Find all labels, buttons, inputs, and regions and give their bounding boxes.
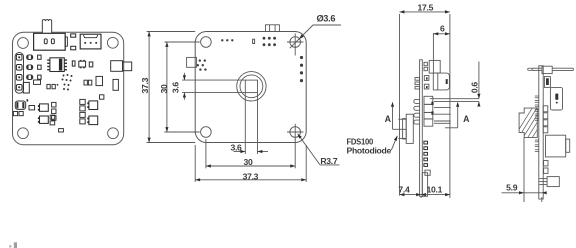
- switch SW1 slot 2: [51, 39, 54, 44]
- dim 0.6: [430, 62, 481, 107]
- capacitor C4: [23, 82, 29, 93]
- edge component Y1: [111, 61, 132, 72]
- dim 37.3 horizontal: [195, 145, 306, 182]
- bottom connector side: [422, 173, 427, 197]
- callout diameter 3.6: [290, 14, 341, 49]
- mounting hole bottom-left: [201, 127, 212, 138]
- PCB board outline (top view): [13, 32, 124, 145]
- svg-text:5.9: 5.9: [506, 183, 518, 193]
- capacitor C2: [89, 62, 93, 67]
- resistor R7: [29, 106, 35, 110]
- capacitor C10: [100, 95, 104, 99]
- photodiode side body: [398, 114, 413, 143]
- photodiode square: [245, 80, 257, 142]
- svg-text:Ø3.6: Ø3.6: [316, 14, 335, 24]
- capacitor C5: [15, 99, 28, 109]
- dim 37.3 vertical: [140, 32, 195, 143]
- switch side body: [429, 60, 449, 90]
- capacitor C1: [72, 61, 75, 66]
- photodiode section (hatched): [514, 107, 565, 138]
- resistor R8: [13, 112, 23, 116]
- mounting hole bottom-right: [287, 124, 303, 140]
- extension line right: [449, 14, 451, 198]
- resistors R1-R3: [38, 55, 42, 79]
- cropped logo fragment: [9, 242, 17, 248]
- switch SW1 side nub: [65, 37, 67, 46]
- switch SW1 slot 1: [44, 39, 47, 44]
- dim 3.6 vertical: [170, 73, 245, 100]
- resistor R4: [113, 79, 118, 90]
- pin stubs: [424, 141, 428, 166]
- svg-text:17.5: 17.5: [418, 2, 434, 12]
- switch body right view: [542, 66, 552, 73]
- dim 30 horizontal: [206, 139, 295, 168]
- IC U1: [47, 58, 67, 72]
- lower block: [539, 177, 559, 187]
- corner hole top-right: [107, 37, 118, 48]
- via cluster 2: [197, 59, 207, 70]
- PCB board outline (dimension view): [195, 32, 306, 143]
- svg-text:Photodiode: Photodiode: [347, 145, 392, 155]
- PCB edge (side view): [420, 60, 423, 197]
- resistor R6: [47, 84, 58, 89]
- terminal stack right view: [543, 106, 548, 133]
- svg-text:A: A: [385, 114, 392, 124]
- pin header J2: [15, 53, 23, 94]
- dim 17.5: [400, 2, 450, 13]
- transistor Q5: [87, 116, 97, 125]
- via cluster: [62, 74, 73, 91]
- connector J1 pins: [84, 42, 97, 44]
- side components upper: [424, 62, 429, 89]
- bottom row parts: [50, 115, 55, 125]
- dim 6: [433, 23, 450, 73]
- svg-text:3.6: 3.6: [170, 82, 180, 94]
- dim 7.4 and 10.1: [398, 185, 450, 198]
- extension line left: [399, 14, 401, 196]
- capacitor C3: [84, 80, 92, 85]
- svg-text:30: 30: [244, 157, 253, 167]
- corner hole top-left: [18, 38, 29, 49]
- svg-text:10.1: 10.1: [427, 185, 443, 195]
- fiducial: [253, 39, 255, 43]
- dim 30 vertical: [159, 42, 200, 132]
- section arrow A left: [385, 102, 399, 130]
- resistor column R9-R11: [52, 102, 56, 120]
- PCB edge (right view): [539, 66, 543, 199]
- diodes D1-D3: [27, 55, 33, 80]
- dim 5.9: [502, 183, 547, 202]
- capacitor column C6-C9: [80, 99, 85, 124]
- spring contacts: [414, 78, 420, 125]
- bottom connector right view: [546, 135, 570, 157]
- lower component: [425, 170, 430, 175]
- through-hole pins: [535, 96, 539, 152]
- svg-text:37.3: 37.3: [243, 171, 259, 181]
- transistor Q1: [79, 60, 86, 68]
- via grid: [263, 37, 276, 46]
- svg-text:3.6: 3.6: [230, 142, 242, 152]
- transistor Q2: [38, 104, 48, 111]
- svg-text:30: 30: [159, 84, 169, 93]
- edge tab: [187, 57, 197, 67]
- wire lines: [434, 107, 451, 123]
- svg-text:R3.7: R3.7: [320, 156, 337, 166]
- resistor R5: [34, 80, 41, 84]
- corner hole bottom-right: [108, 128, 119, 139]
- svg-text:0.6: 0.6: [470, 82, 480, 94]
- transistor Q4: [87, 101, 97, 110]
- via row: [221, 39, 233, 41]
- small part: [544, 161, 548, 174]
- resistor R14: [59, 129, 64, 132]
- connector J1 notch: [83, 35, 97, 38]
- pad P1: [71, 34, 76, 37]
- component A4: [544, 77, 550, 88]
- corner hole bottom-left: [18, 128, 29, 139]
- via column: [300, 56, 303, 82]
- photodiode window circles: [237, 72, 266, 101]
- svg-text:6: 6: [440, 23, 445, 33]
- svg-text:A: A: [463, 114, 470, 124]
- switch lever rod: [528, 68, 574, 70]
- terminal stack: [424, 96, 434, 126]
- mounting hole top-left: [201, 37, 212, 48]
- switch bump on top edge: [266, 25, 280, 32]
- transistor Q3: [38, 116, 48, 123]
- dim 3.6 horizontal: [230, 142, 268, 154]
- connector body right view: [550, 87, 562, 110]
- switch SW1 lever: [42, 20, 51, 34]
- inductor L1: [96, 76, 103, 85]
- svg-text:37.3: 37.3: [140, 77, 150, 93]
- svg-text:7.4: 7.4: [398, 185, 410, 195]
- switch SW1 body: [34, 33, 66, 50]
- callout R3.7: [298, 134, 340, 166]
- section arrow A right: [445, 102, 470, 128]
- connector J1 body: [80, 34, 101, 49]
- extension from photodiode: [523, 137, 525, 202]
- mounting hole top-right: [287, 33, 303, 55]
- label FDS100 Photodiode: [347, 136, 398, 156]
- pad P2: [71, 46, 76, 50]
